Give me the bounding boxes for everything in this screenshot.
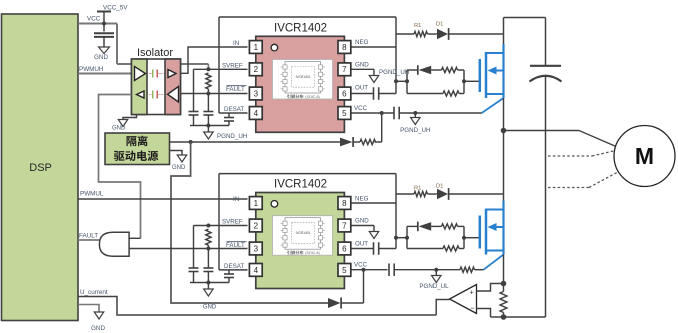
svg-text:U_current: U_current bbox=[80, 289, 108, 296]
svg-text:DESAT: DESAT bbox=[224, 106, 244, 113]
svg-text:OUT: OUT bbox=[355, 241, 368, 248]
svg-text:IVCR1401: IVCR1401 bbox=[296, 231, 311, 235]
svg-text:VCC_5V: VCC_5V bbox=[103, 5, 128, 12]
svg-text:DSP: DSP bbox=[29, 162, 52, 174]
svg-text:FAULT: FAULT bbox=[226, 242, 245, 249]
svg-text:3: 3 bbox=[254, 89, 259, 98]
svg-text:7: 7 bbox=[342, 65, 347, 74]
svg-text:(SOIC-8): (SOIC-8) bbox=[305, 95, 319, 99]
svg-text:D1: D1 bbox=[436, 184, 443, 190]
svg-text:PWMUH: PWMUH bbox=[79, 66, 104, 73]
svg-text:IN: IN bbox=[233, 40, 239, 47]
svg-text:M: M bbox=[635, 143, 654, 169]
svg-text:SVREF: SVREF bbox=[222, 219, 243, 226]
svg-text:FAULT: FAULT bbox=[226, 86, 245, 93]
svg-text:IVCR1402: IVCR1402 bbox=[274, 23, 327, 35]
svg-text:+: + bbox=[469, 289, 473, 296]
svg-text:IVCR1402: IVCR1402 bbox=[274, 179, 327, 191]
svg-text:VCC: VCC bbox=[354, 105, 368, 112]
svg-text:GND: GND bbox=[112, 126, 126, 132]
svg-text:VCC: VCC bbox=[87, 16, 101, 23]
svg-text:4: 4 bbox=[254, 266, 259, 275]
svg-text:SVREF: SVREF bbox=[222, 62, 243, 69]
svg-text:R1: R1 bbox=[414, 23, 421, 29]
svg-text:NEG: NEG bbox=[355, 39, 369, 46]
svg-text:1: 1 bbox=[254, 43, 259, 52]
svg-text:GND: GND bbox=[94, 54, 108, 61]
svg-text:VCC: VCC bbox=[354, 262, 368, 269]
svg-text:3: 3 bbox=[254, 244, 259, 253]
svg-text:R1: R1 bbox=[414, 186, 421, 192]
svg-text:GND: GND bbox=[355, 62, 369, 69]
svg-text:GND: GND bbox=[355, 218, 369, 225]
svg-text:2: 2 bbox=[254, 65, 259, 74]
svg-text:5: 5 bbox=[342, 109, 347, 118]
svg-text:7: 7 bbox=[342, 221, 347, 230]
svg-text:2: 2 bbox=[254, 221, 259, 230]
svg-text:6: 6 bbox=[342, 244, 347, 253]
svg-text:GND: GND bbox=[172, 165, 186, 171]
svg-text:5: 5 bbox=[342, 266, 347, 275]
svg-text:6: 6 bbox=[342, 89, 347, 98]
svg-text:IVCR1401: IVCR1401 bbox=[296, 75, 311, 79]
svg-text:(SOIC-8): (SOIC-8) bbox=[305, 251, 319, 255]
svg-text:IN: IN bbox=[233, 196, 239, 203]
svg-text:−: − bbox=[470, 304, 475, 313]
svg-text:PWMUL: PWMUL bbox=[80, 191, 104, 198]
svg-text:4: 4 bbox=[254, 109, 259, 118]
svg-text:PGND_UH: PGND_UH bbox=[400, 127, 430, 134]
svg-text:D1: D1 bbox=[436, 22, 443, 28]
svg-text:Isolator: Isolator bbox=[137, 47, 173, 59]
svg-text:8: 8 bbox=[342, 199, 347, 208]
svg-text:1: 1 bbox=[254, 199, 259, 208]
svg-text:GND: GND bbox=[203, 305, 217, 311]
svg-text:OUT: OUT bbox=[355, 85, 368, 92]
svg-text:DESAT: DESAT bbox=[224, 263, 244, 270]
svg-text:FAULT: FAULT bbox=[79, 233, 98, 240]
svg-text:8: 8 bbox=[342, 43, 347, 52]
svg-text:NEG: NEG bbox=[355, 196, 369, 203]
svg-text:GND: GND bbox=[91, 325, 105, 332]
svg-text:PGND_UL: PGND_UL bbox=[419, 283, 449, 290]
svg-text:PGND_UH: PGND_UH bbox=[217, 133, 247, 140]
svg-text:PGND_UH: PGND_UH bbox=[379, 69, 409, 76]
